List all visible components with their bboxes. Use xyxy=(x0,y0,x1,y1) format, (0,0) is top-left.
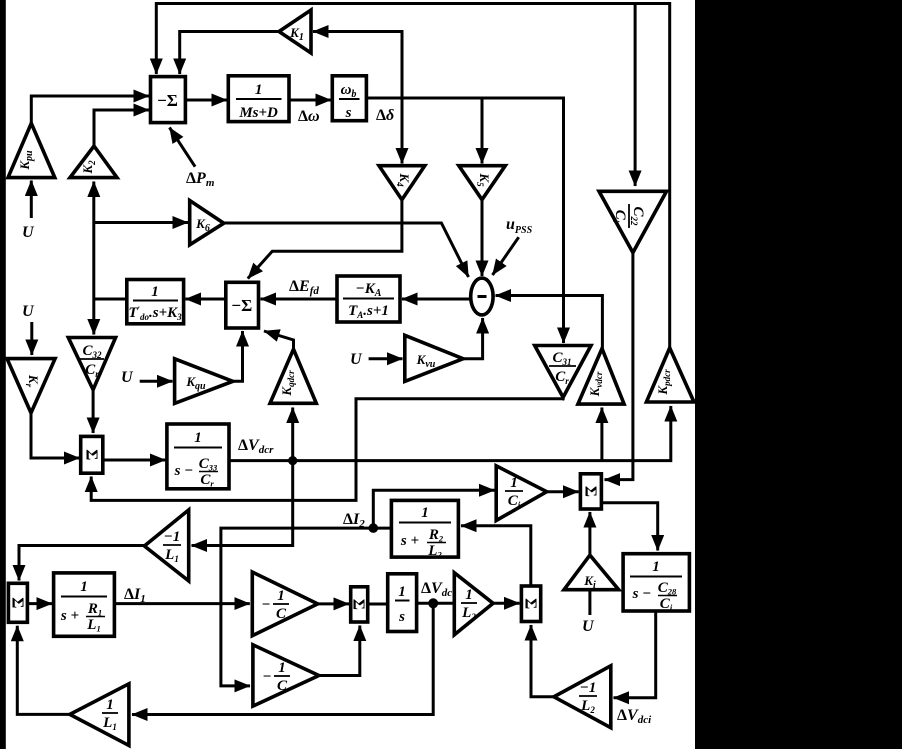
block 1/(Tdo.s+K3) xyxy=(127,280,184,324)
wire: delta-delta node up to K1 input xyxy=(313,32,402,99)
wire: dI1 line into upper gain -1/C xyxy=(114,602,249,605)
summer 1 box -S xyxy=(151,77,186,123)
svg-text:TA.s+1: TA.s+1 xyxy=(348,303,389,320)
wire: K2 output up then right into summer 1 left xyxy=(94,110,149,146)
wire: Ki output up into summer S5 bottom xyxy=(588,512,591,555)
svg-text:1: 1 xyxy=(277,588,285,604)
wire: dI2 node left, down, right into lower gain -1/C xyxy=(221,528,373,686)
wire: summer S5 output right then down into block 1/(s-C28/Ci) xyxy=(601,503,657,551)
wire: junction up into Kqdcr xyxy=(291,408,294,461)
wire: dI2 node up then right into gain 1/Ci xyxy=(373,490,494,528)
wire: summer S7 output into block 1/s xyxy=(368,603,388,606)
wire: U input up into Kpu xyxy=(30,181,33,219)
summer S3 box xyxy=(81,436,103,473)
block wb/s xyxy=(332,76,366,121)
block 1/(s+R2/L2) xyxy=(391,500,458,559)
gain Kqu xyxy=(175,359,233,404)
svg-text:1: 1 xyxy=(194,430,202,446)
wire: dVdc node down then left into gain 1/L1 xyxy=(132,603,433,714)
wire: lower gain -1/C output right then up into summer S7 bottom xyxy=(319,626,360,676)
wire: K1 output left then down into summer 1 top xyxy=(180,32,279,75)
wire: Kpdcr output up, across top, down into summer 1 top xyxy=(156,4,669,350)
black scan border left xyxy=(0,0,6,749)
wire: ellipse summer output left into block -KA/(TA.s+1) xyxy=(402,298,471,301)
wire: summer 1 output into block 1/(Ms+D) xyxy=(185,99,227,102)
svg-text:1: 1 xyxy=(151,284,159,300)
gain Kpdcr xyxy=(646,348,694,402)
svg-text:s −: s − xyxy=(174,463,194,479)
summer S5 box xyxy=(580,474,601,509)
wire: upper gain -1/C output into summer S7 left xyxy=(318,602,349,605)
svg-text:Ms+D: Ms+D xyxy=(238,105,278,121)
node: dI2 junction dot xyxy=(369,523,379,533)
node: dVdcr junction dot xyxy=(288,456,297,465)
gain C32/Cr xyxy=(68,338,115,390)
wire: C22/Ci output down then left into summer S5 right side xyxy=(605,253,633,480)
wire: block 1/(Ms+D) output into block wb/s xyxy=(289,99,331,102)
svg-text:1: 1 xyxy=(278,660,286,676)
gain Kr xyxy=(7,359,55,413)
wire: branch down into K5 xyxy=(481,98,484,164)
svg-text:Δδ: Δδ xyxy=(376,107,394,124)
svg-text:Σ: Σ xyxy=(82,449,101,460)
svg-text:1: 1 xyxy=(255,82,263,98)
svg-text:s +: s + xyxy=(60,608,79,624)
summer 2 box -S xyxy=(226,282,259,328)
svg-text:Σ: Σ xyxy=(522,598,541,609)
wire: tee up from dVdcr line into Kvdcr xyxy=(600,408,603,461)
svg-text:U: U xyxy=(582,618,595,635)
wire: gain 1/L2 output into summer S4 left xyxy=(493,602,519,605)
svg-text:T′do.s+K3: T′do.s+K3 xyxy=(128,305,182,322)
svg-text:1: 1 xyxy=(465,587,473,603)
gain -1/C upper xyxy=(252,572,317,636)
gain Kqdcr xyxy=(270,349,316,403)
wire: dVdcr line right then up into Kpdcr xyxy=(229,406,671,461)
gain Kvdcr xyxy=(578,349,624,405)
wire: branch down into K4 xyxy=(401,98,404,164)
gain 1/L2 xyxy=(454,573,493,635)
wire: summer S6 output into block 1/(s+R1/L1) xyxy=(27,602,52,605)
label dPm with arrow into summer 1 bottom xyxy=(170,128,215,190)
gain Ki xyxy=(564,555,619,591)
wire: gain -1/L1 output left then down into summer S6 top xyxy=(19,546,144,581)
gain K6 xyxy=(190,201,224,245)
svg-text:−1: −1 xyxy=(580,680,597,696)
wire: K6 output right then diagonal into ellipse summer xyxy=(224,223,469,277)
wire: K5 output down into ellipse summer top xyxy=(481,200,484,276)
wire: summer 2 output left into block 1/(Tdo.s+K3) xyxy=(186,298,226,301)
svg-text:1: 1 xyxy=(106,697,114,713)
gain Kpu xyxy=(8,123,55,177)
block 1/(s-C28/Ci) xyxy=(623,554,689,613)
svg-text:Δω: Δω xyxy=(298,108,320,125)
block 1/(s-C33/Cr) xyxy=(167,424,229,489)
gain C31/Cr xyxy=(535,346,591,398)
wire: tee right into K6 xyxy=(94,221,188,224)
svg-text:1: 1 xyxy=(421,505,429,521)
wire: gain 1/Ci output into summer S5 left xyxy=(547,490,579,493)
wire: Kpu output up then right into summer 1 left xyxy=(31,96,149,123)
gain C22/Ci xyxy=(599,191,667,252)
gain -1/C lower xyxy=(253,645,319,706)
block 1/(s+R1/L1) xyxy=(54,573,115,636)
wire: U stub below Ki xyxy=(588,591,591,615)
wire: gain -1/L2 output left then up into summer S4 bottom xyxy=(531,625,554,697)
wire: block 1/(Tdo.s+K3) output left to node xyxy=(94,298,127,301)
gain -1/L2 xyxy=(554,666,611,728)
block -KA/(TA.s+1) xyxy=(337,276,400,322)
svg-text:1: 1 xyxy=(510,475,518,491)
summer S4 box xyxy=(521,586,540,622)
wire: uPSS diagonal arrow into ellipse summer xyxy=(493,237,519,275)
svg-text:U: U xyxy=(22,303,35,320)
wire: U input into Kvu xyxy=(369,357,403,360)
ellipse summer minus xyxy=(471,278,493,315)
wire: block 1/(s+R2/L2) output left to dI2 node xyxy=(373,527,391,530)
wire: C31/Cr output down, left, up into summer S3 bottom xyxy=(91,396,563,500)
svg-text:Σ: Σ xyxy=(350,599,369,610)
svg-text:1: 1 xyxy=(652,559,660,575)
summer S7 box xyxy=(350,587,369,622)
block 1/s xyxy=(388,574,417,632)
block 1/(Ms+D) xyxy=(228,76,289,122)
node: dVdc junction dot xyxy=(428,598,438,608)
wire: tee from top wire down into C22/Ci gain xyxy=(634,4,637,187)
black scan border right xyxy=(695,0,902,749)
svg-text:U: U xyxy=(121,369,134,386)
wire: gain 1/L1 output left then up into summer S6 bottom xyxy=(17,626,70,715)
svg-text:U: U xyxy=(350,351,363,368)
wire: U input into Kqu xyxy=(140,380,173,383)
svg-text:−1: −1 xyxy=(164,529,181,545)
svg-text:Σ: Σ xyxy=(9,597,28,608)
wire: K4 output down, left, diagonal into summer 2 top xyxy=(248,200,402,279)
gain Kvu xyxy=(405,335,463,381)
summer S6 box xyxy=(8,583,27,622)
svg-text:−Σ: −Σ xyxy=(157,91,178,110)
svg-text:Σ: Σ xyxy=(581,486,600,497)
gain K5 xyxy=(459,166,506,200)
svg-text:−: − xyxy=(262,669,271,685)
wire: C32/Cr output down into summer S3 top xyxy=(92,390,95,433)
svg-text:s +: s + xyxy=(400,533,419,549)
svg-text:s −: s − xyxy=(632,586,652,602)
wire: dEfd from KA block into summer 2 right xyxy=(261,298,338,301)
wire: summer S4 output up then left into block 1/(s+R2/L2) right xyxy=(461,526,531,586)
wire: Kvu output right then up into ellipse summer bottom xyxy=(463,318,483,359)
wire: delta-delta line right then down into C31/Cr gain xyxy=(366,98,563,343)
wire: field-voltage node vertical up into K2 xyxy=(92,182,95,300)
svg-text:s: s xyxy=(345,105,352,121)
svg-text:C: C xyxy=(277,678,288,694)
gain K4 xyxy=(379,166,425,200)
wire: block 1/s output through dVdc node into gain 1/L2 xyxy=(417,602,455,605)
wire: field-voltage node vertical down into C32/Cr xyxy=(92,299,95,335)
svg-text:C: C xyxy=(276,606,287,622)
svg-text:−Σ: −Σ xyxy=(231,296,252,315)
svg-text:1: 1 xyxy=(398,584,406,600)
gain 1/Ci xyxy=(496,466,547,521)
gain K2 xyxy=(70,146,117,178)
wire: Kr output down then right into summer S3 left xyxy=(31,413,80,458)
gain 1/L1 xyxy=(70,684,129,746)
wire: Kvdcr output up then left into ellipse summer right xyxy=(496,296,603,349)
wire: Kqdcr output diagonal up into summer 2 bottom corner xyxy=(264,331,294,349)
svg-text:−: − xyxy=(261,597,270,613)
wire: block 1/(s-C28/Ci) output down then left into gain -1/L2 xyxy=(614,611,656,698)
wire: U input down into Kr xyxy=(30,322,33,355)
svg-text:U: U xyxy=(22,224,35,241)
wire: Kqu output right then up into summer 2 bottom xyxy=(233,331,243,381)
wire: summer S3 output into block 1/(s-C33/Cr) xyxy=(103,459,166,462)
gain -1/L1 xyxy=(144,510,188,581)
wire: junction down then left into gain -1/L1 xyxy=(192,461,293,546)
gain K1 xyxy=(279,10,311,53)
svg-text:1: 1 xyxy=(80,579,88,595)
svg-text:s: s xyxy=(398,609,405,625)
